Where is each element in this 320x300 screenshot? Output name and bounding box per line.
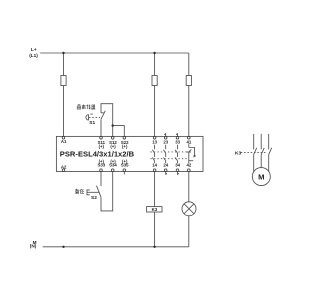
- svg-text:S34: S34: [109, 162, 117, 167]
- svg-text:S35: S35: [121, 162, 129, 167]
- svg-text:A2: A2: [61, 165, 67, 170]
- svg-text:24: 24: [163, 162, 168, 167]
- svg-text:S1: S1: [89, 120, 95, 126]
- svg-text:A1: A1: [61, 139, 67, 144]
- svg-text:L+: L+: [31, 47, 37, 52]
- svg-text:(N): (N): [30, 244, 37, 249]
- svg-text:M: M: [258, 173, 264, 182]
- svg-text:S2: S2: [91, 195, 97, 201]
- svg-text:(+): (+): [122, 144, 128, 149]
- svg-text:(+): (+): [110, 144, 116, 149]
- svg-text:34: 34: [175, 162, 180, 167]
- svg-text:S33: S33: [97, 162, 105, 167]
- svg-text:(+): (+): [99, 144, 105, 149]
- svg-text:K3: K3: [152, 207, 158, 212]
- svg-text:41: 41: [187, 139, 192, 144]
- svg-text:23: 23: [163, 139, 168, 144]
- svg-text:PSR-ESL4/3x1/1x2/B: PSR-ESL4/3x1/1x2/B: [60, 149, 135, 158]
- svg-text:42: 42: [187, 162, 192, 167]
- svg-text:33: 33: [175, 139, 180, 144]
- svg-text:14: 14: [152, 162, 157, 167]
- svg-text:13: 13: [152, 139, 157, 144]
- svg-text:K3: K3: [235, 150, 241, 156]
- svg-text:(L1): (L1): [29, 53, 38, 58]
